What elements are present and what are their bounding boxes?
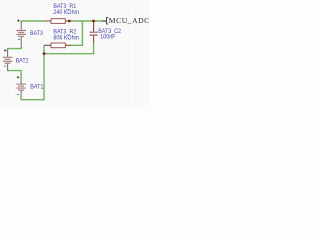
capacitor C2 (BAT3_C2): [90, 21, 98, 42]
svg-text:BAT1: BAT1: [30, 83, 44, 91]
battery BAT1: [16, 76, 26, 95]
wire BAT3 plus to R1: [21, 20, 45, 23]
battery BAT2: [3, 49, 13, 70]
wire node down to R2 right: [71, 21, 82, 45]
junction node C2-top: [92, 20, 95, 23]
wire node R1 to port MCU_ADC: [70, 20, 103, 22]
svg-text:MCU_ADC: MCU_ADC: [109, 16, 150, 25]
wire BAT2 minus to BAT1 plus: [8, 70, 22, 78]
junction node R1-out: [68, 20, 71, 23]
svg-text:BAT3: BAT3: [30, 29, 44, 37]
svg-text:BAT2: BAT2: [16, 57, 30, 65]
resistor R2 (BAT3_R2): [44, 43, 71, 48]
wire C2 bottom to ground rail: [45, 42, 94, 54]
battery BAT3: [16, 20, 26, 49]
wire R2 left to ground rail to BAT1 minus: [21, 45, 44, 99]
svg-text:100nF: 100nF: [100, 33, 115, 41]
svg-text:806 KOhm: 806 KOhm: [53, 34, 79, 42]
resistor R1 (BAT3_R1): [45, 19, 70, 24]
svg-text:240 KOhm: 240 KOhm: [53, 8, 79, 16]
wire BAT3 minus to BAT2 plus: [8, 48, 22, 51]
port MCU_ADC: [102, 16, 150, 25]
junction ground rail: [43, 52, 46, 55]
